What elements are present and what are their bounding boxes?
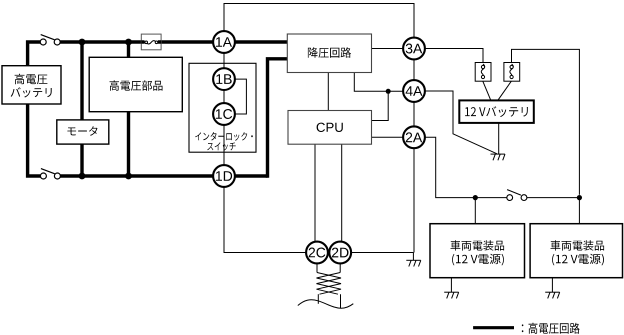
ground: below 12V battery: [491, 154, 506, 160]
wire: HV top bus from battery to step-down circuit: [28, 42, 288, 67]
junction dot bottom bus right: [125, 173, 132, 180]
twisted pair below 2C/2D: [298, 264, 354, 309]
switch SW3 on 12V relay bus: [507, 190, 527, 201]
wire: 2D right to ground junction: [351, 252, 413, 254]
wire: 1B to 1C: [223, 91, 225, 104]
terminal circle 2A: [403, 126, 425, 148]
label: CPU: [317, 123, 343, 132]
label: legend HV circuit: [522, 323, 580, 334]
switch SW2 on HV bottom bus: [40, 169, 60, 179]
wire: fuse F2 top right bus down right side: [512, 49, 580, 194]
wire: thin line 1A to top bus to 3A: [224, 4, 414, 38]
junction dot bottom bus left: [79, 173, 86, 180]
label: HV battery line2: [11, 87, 52, 97]
wire: relay bus right segment: [527, 197, 580, 199]
label: 12V battery: [465, 106, 528, 117]
terminal circle 2C: [306, 242, 328, 264]
wire: 1D down and right to 2C: [224, 187, 306, 253]
terminal circle 1D: [213, 165, 235, 187]
wire: step-down right to 3A: [372, 48, 404, 50]
label: step-down circuit: [308, 47, 351, 58]
junction dot top bus left: [79, 39, 86, 46]
box: 12V battery: [459, 100, 534, 123]
label: interlock line1: [195, 132, 253, 141]
box: CPU: [288, 111, 372, 145]
label: vehicle load left line2: [452, 254, 504, 266]
wire: 4A right down diagonal to ground: [425, 91, 497, 154]
terminal circle 4A: [403, 80, 425, 102]
box: vehicle load left: [430, 224, 525, 278]
terminal circle 2D: [329, 242, 351, 264]
wire: step-down bottom to CPU top: [327, 73, 329, 111]
wire: 4A to 2A: [413, 102, 415, 126]
wire: 2A right down to relay bus: [425, 137, 507, 197]
label: interlock line2: [207, 142, 235, 150]
wire: junction down to right vehicle load: [578, 198, 580, 224]
wire: HV loop from 1D up into step-down circuit: [268, 59, 288, 178]
wire: fuse F2 to 12V battery: [498, 81, 512, 101]
junction dot relay bus left: [473, 195, 478, 200]
wire: HV branch to HV parts: [127, 42, 130, 176]
terminal circle 3A: [403, 38, 425, 60]
wire: junction down to CPU right: [372, 91, 389, 120]
wire: HV bottom bus: [28, 103, 268, 176]
ground: below left vehicle load: [444, 292, 459, 298]
wire: 2A down to ground junction: [413, 149, 415, 253]
legend: HV circuit line sample: [473, 326, 514, 329]
terminal circle 1A: [213, 31, 235, 53]
wire: 1A down to interlock box: [223, 53, 225, 69]
label: vehicle load right line1: [551, 240, 605, 250]
box: vehicle load right: [530, 224, 622, 278]
wire: 12V battery to ground: [498, 123, 500, 155]
fuse F0 on HV top bus: [141, 34, 161, 50]
label: motor: [68, 126, 98, 135]
label: HV parts: [110, 80, 163, 90]
junction dot 4A line: [386, 89, 391, 94]
junction dot top bus right: [125, 39, 132, 46]
label: HV battery line1: [15, 74, 48, 84]
box: interlock switch enclosure: [189, 63, 256, 152]
wire: CPU bottom to 2C: [314, 144, 316, 241]
wire: fuse F1 to 12V battery: [483, 81, 491, 101]
box: motor: [57, 120, 109, 144]
ground: below right vehicle load: [545, 292, 560, 298]
box: HV battery: [2, 66, 61, 104]
terminal circle 1C: [213, 103, 235, 125]
label: vehicle load left line1: [451, 240, 505, 250]
wire: CPU right to 2A: [372, 136, 404, 138]
label: vehicle load right line2: [552, 254, 604, 266]
wire: junction down to left vehicle load: [474, 198, 476, 224]
wire: 3A to 4A: [413, 60, 415, 81]
wire: 3A right to fuse F1: [425, 49, 483, 63]
fuse F2 (12V battery right): [504, 63, 520, 82]
wire: right vehicle load to ground: [551, 278, 553, 293]
terminal circle 1B: [213, 68, 235, 90]
switch SW1 on HV top bus: [40, 35, 60, 45]
ground: mid (below 2A chain): [406, 253, 421, 267]
fuse F1 (12V battery left): [475, 63, 491, 82]
box: step-down circuit: [287, 34, 371, 73]
wire: CPU bottom to 2D: [341, 144, 343, 241]
junction dot relay bus right: [577, 195, 582, 200]
wire: 1C down to 1D: [223, 125, 225, 165]
box: HV parts: [89, 57, 182, 111]
wire: left vehicle load to ground: [450, 278, 452, 293]
wire: step-down bottom to 4A: [354, 73, 403, 92]
wire: HV branch to motor: [80, 42, 83, 176]
wire: bracket joining 1B and 1C right sides: [235, 79, 247, 114]
